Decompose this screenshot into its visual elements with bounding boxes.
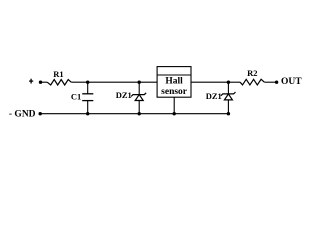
svg-text:DZ1: DZ1 (116, 90, 132, 100)
wire (71, 81, 88, 83)
svg-text:R1: R1 (53, 69, 63, 79)
resistor R1 (47, 69, 71, 85)
node GND terminal (9, 110, 42, 120)
zener diode DZ1 (right) (206, 82, 236, 114)
svg-text:R2: R2 (247, 68, 257, 78)
svg-text:sensor: sensor (161, 87, 188, 97)
wire (ground rail) (139, 113, 228, 115)
node + (positive supply terminal) (29, 79, 42, 84)
wire (88, 81, 140, 83)
svg-text:Hall: Hall (165, 76, 183, 86)
resistor R2 (240, 68, 264, 85)
zener diode DZ1 (left) (116, 82, 146, 114)
svg-text:DZ1: DZ1 (206, 91, 222, 101)
svg-text:- GND: - GND (9, 110, 36, 120)
hall sensor U1 (157, 67, 191, 98)
node OUT terminal (275, 77, 302, 87)
svg-text:OUT: OUT (281, 77, 302, 87)
wire (139, 81, 157, 83)
capacitor C1 (71, 82, 93, 114)
node top of DZ1 right (227, 81, 230, 84)
node top of DZ1 left (138, 81, 141, 84)
svg-text:C1: C1 (71, 91, 81, 101)
wire (ground rail) (88, 113, 140, 115)
node bottom of C1 (86, 112, 89, 115)
node top of C1 (86, 81, 89, 84)
node bottom of DZ1 left (138, 112, 141, 115)
wire (264, 81, 276, 83)
node hall sensor ground (173, 112, 176, 115)
wire (191, 81, 228, 83)
node bottom of DZ1 right (227, 112, 230, 115)
wire (42, 81, 47, 83)
wire (ground rail) (40, 113, 87, 115)
wire (173, 97, 175, 114)
wire (228, 81, 240, 83)
